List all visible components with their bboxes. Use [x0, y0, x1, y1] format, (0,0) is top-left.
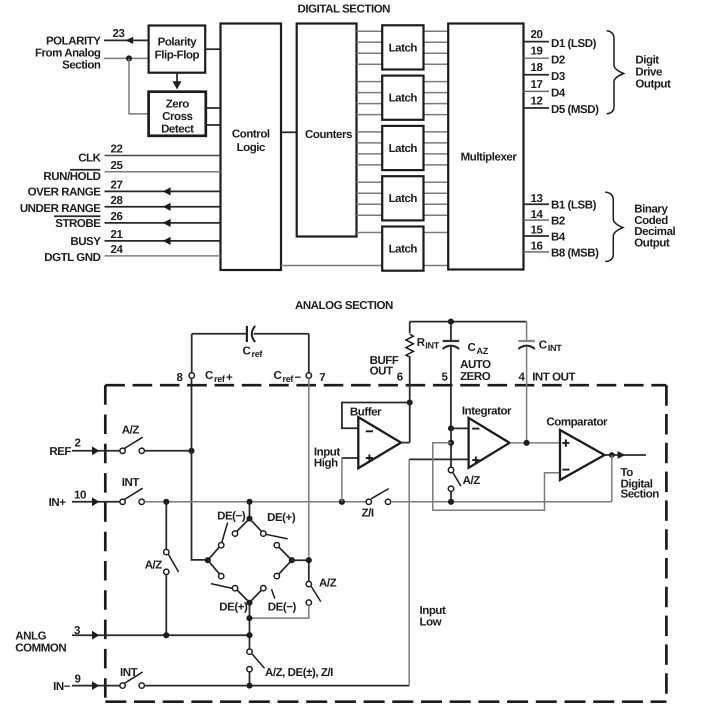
latch L2: [382, 76, 423, 120]
svg-text:A/Z: A/Z: [145, 559, 163, 571]
wire ZCD to Control Logic upper: [206, 107, 221, 109]
svg-text:C: C: [274, 370, 282, 382]
bus wires counters to latch2 and latch2 to multiplexer: [357, 82, 449, 115]
svg-text:INT OUT: INT OUT: [532, 372, 575, 384]
svg-text:C: C: [205, 370, 213, 382]
svg-text:REF: REF: [49, 446, 71, 458]
block Multiplexer: [448, 24, 523, 270]
svg-text:−: −: [295, 372, 302, 384]
junction dot REF / pin8 vertical: [188, 448, 194, 454]
wire REF switch to Cref+ node: [144, 450, 191, 452]
wire input high line: [144, 501, 366, 503]
svg-text:BUSY: BUSY: [70, 236, 101, 248]
svg-text:Output: Output: [634, 237, 670, 249]
wire UNDER RANGE output pin 28: [105, 203, 221, 211]
wire buffer plus input from input high: [342, 457, 358, 459]
svg-text:ref: ref: [252, 349, 264, 359]
wire PFF to Control Logic: [205, 48, 220, 50]
svg-text:Digit: Digit: [635, 55, 659, 67]
svg-text:+: +: [226, 372, 233, 384]
svg-text:ANLG: ANLG: [15, 630, 46, 642]
switch DE(+) lower left: [208, 560, 248, 600]
wire diamond stem from input high: [249, 502, 251, 519]
wire Control Logic to Counters: [281, 131, 297, 133]
svg-text:CLK: CLK: [78, 152, 101, 164]
svg-text:INT: INT: [122, 477, 140, 489]
svg-text:A/Z: A/Z: [463, 475, 481, 487]
svg-text:9: 9: [75, 673, 81, 685]
wire integrator node to comparator minus path: [448, 440, 454, 446]
svg-text:Output: Output: [635, 78, 671, 90]
svg-text:DE(−): DE(−): [268, 601, 297, 613]
svg-text:COMMON: COMMON: [15, 642, 66, 654]
svg-text:From Analog: From Analog: [35, 48, 101, 60]
wire center vertical to ANLG COMMON: [249, 603, 251, 649]
svg-text:B2: B2: [551, 216, 565, 228]
svg-text:8: 8: [177, 372, 184, 384]
svg-text:OUT: OUT: [370, 365, 393, 377]
bus wires latch5: [281, 233, 448, 266]
wire CLK input pin 22: [105, 155, 221, 157]
svg-text:Latch: Latch: [389, 42, 418, 54]
flip-flop U1 Polarity Flip-Flop: [149, 26, 206, 73]
wire Cref top loop: [192, 333, 246, 335]
svg-text:Low: Low: [420, 617, 442, 629]
wire OVER RANGE output pin 27: [105, 187, 221, 195]
svg-text:Logic: Logic: [237, 142, 266, 154]
svg-text:Detect: Detect: [161, 124, 194, 136]
node diamond bottom vertex: [246, 600, 252, 606]
svg-text:D1 (LSD): D1 (LSD): [551, 38, 597, 50]
svg-text:Drive: Drive: [635, 67, 662, 79]
wire buffer output to pin6 vertical: [401, 442, 410, 444]
svg-text:10: 10: [74, 489, 86, 501]
svg-text:7: 7: [319, 372, 325, 384]
junction dot top rail to CAZ: [448, 319, 454, 325]
svg-text:A/Z: A/Z: [122, 425, 140, 437]
wire RUN/HOLD input pin 25: [105, 171, 221, 173]
junction dot comparator output: [609, 452, 615, 458]
svg-text:To: To: [621, 467, 634, 479]
svg-text:Latch: Latch: [389, 93, 418, 105]
svg-text:RUN/HOLD: RUN/HOLD: [43, 171, 100, 183]
svg-text:2: 2: [75, 438, 81, 450]
svg-text:STROBE: STROBE: [55, 218, 101, 230]
svg-text:DIGITAL SECTION: DIGITAL SECTION: [298, 3, 391, 15]
svg-text:16: 16: [531, 241, 543, 253]
svg-text:B1 (LSB): B1 (LSB): [551, 200, 597, 212]
svg-text:POLARITY: POLARITY: [46, 36, 101, 48]
svg-text:ZERO: ZERO: [460, 371, 491, 383]
svg-text:Z/I: Z/I: [362, 508, 374, 520]
svg-text:C: C: [468, 342, 476, 354]
svg-text:D3: D3: [551, 71, 565, 83]
latch L5: [382, 227, 423, 271]
svg-text:28: 28: [111, 195, 124, 207]
svg-text:Cross: Cross: [162, 111, 192, 123]
wire POLARITY line pin 23: [104, 37, 149, 44]
node diamond right vertex: [289, 557, 295, 563]
wire Polarity FF to Zero Cross Detect with arrowhead: [173, 73, 182, 90]
wire digit output D1 pin 20: [524, 41, 550, 43]
svg-text:IN−: IN−: [53, 681, 71, 693]
svg-text:Comparator: Comparator: [546, 417, 608, 429]
svg-text:Binary: Binary: [634, 204, 668, 216]
svg-text:C: C: [539, 340, 547, 352]
svg-text:Latch: Latch: [389, 244, 418, 256]
latch L1: [382, 25, 423, 69]
op-amp U5 comparator triangle: [560, 430, 605, 480]
svg-text:IN+: IN+: [49, 497, 67, 509]
svg-text:23: 23: [113, 28, 125, 40]
svg-text:Latch: Latch: [389, 193, 418, 205]
wire comparator output: [605, 451, 646, 459]
svg-text:ref: ref: [214, 374, 226, 384]
svg-text:D5 (MSD): D5 (MSD): [551, 104, 599, 116]
switch Z/I: [366, 489, 391, 505]
svg-text:Coded: Coded: [634, 215, 668, 227]
svg-text:Zero: Zero: [166, 99, 190, 111]
wire digit output D4 pin 17: [524, 90, 550, 92]
wire BCD output B8 pin 16: [524, 251, 550, 253]
bus wires counters to latch3 and latch3 to multiplexer: [357, 132, 449, 165]
wire BCD output B2 pin 14: [524, 219, 550, 221]
svg-text:21: 21: [111, 229, 124, 241]
switch INT on IN-: [120, 672, 144, 688]
svg-text:B4: B4: [551, 232, 566, 244]
latch L4: [382, 176, 423, 220]
wire ZCD to Control Logic lower: [206, 124, 221, 126]
wire From Analog Section to Polarity Flip-Flop: [104, 57, 149, 59]
switch DE(-) lower right: [252, 560, 292, 600]
capacitor CINT: [518, 322, 535, 443]
svg-text:14: 14: [531, 209, 544, 221]
wire DGTL GND pin 24: [105, 255, 221, 257]
bus wires counters to latch1 and latch1 to multiplexer: [357, 31, 449, 64]
switch DE(-) upper left: [210, 519, 250, 559]
svg-text:Latch: Latch: [389, 143, 418, 155]
svg-text:24: 24: [111, 244, 124, 256]
wire BCD output B1 pin 13: [524, 203, 550, 205]
wire Z/I to comparator output node: [391, 501, 612, 503]
switch A/Z IN+ to common: [164, 502, 179, 635]
node diamond top vertex: [246, 516, 252, 522]
pin 7 terminal circle: [306, 373, 311, 378]
svg-text:A/Z, DE(±), Z/I: A/Z, DE(±), Z/I: [265, 667, 333, 679]
switch A/Z integrator input to comparator output: [448, 428, 461, 501]
brace binary coded decimal output: [605, 192, 623, 261]
svg-text:AUTO: AUTO: [460, 359, 491, 371]
op-amp U4 integrator triangle: [469, 418, 510, 468]
svg-text:19: 19: [531, 46, 543, 58]
svg-text:D4: D4: [551, 88, 566, 100]
wire right vertex to pin7 vertical: [292, 559, 309, 561]
block Counters: [297, 24, 357, 237]
switch A/Z DE Z/I common to IN-: [247, 649, 265, 686]
svg-text:3: 3: [74, 625, 80, 637]
svg-text:Integrator: Integrator: [462, 406, 512, 418]
latch L3: [382, 126, 423, 170]
op-amp U3 buffer triangle: [358, 417, 401, 468]
svg-text:Polarity: Polarity: [158, 37, 198, 49]
svg-text:Flip-Flop: Flip-Flop: [155, 50, 200, 62]
svg-text:27: 27: [111, 180, 123, 192]
svg-text:22: 22: [111, 144, 123, 156]
wire digit output D5 pin 12: [524, 107, 550, 109]
svg-text:INT: INT: [548, 343, 562, 353]
svg-text:Input: Input: [420, 605, 446, 617]
bus wires counters to latch4 and latch4 to multiplexer: [357, 182, 449, 215]
junction dot on From Analog wire: [126, 55, 132, 61]
wire REF input pin 2: [72, 446, 120, 455]
wire digit output D2 pin 19: [524, 57, 550, 59]
svg-text:UNDER RANGE: UNDER RANGE: [20, 203, 101, 215]
svg-text:DE(−): DE(−): [217, 510, 246, 522]
svg-text:D2: D2: [551, 54, 565, 66]
svg-text:INT: INT: [425, 341, 439, 351]
svg-text:Counters: Counters: [305, 129, 352, 141]
capacitor Cref: [247, 326, 255, 342]
svg-text:ref: ref: [283, 374, 295, 384]
wire digit output D3 pin 18: [524, 74, 550, 76]
capacitor CAZ: [443, 322, 460, 429]
resistor RINT: [406, 322, 413, 403]
svg-text:B8 (MSB): B8 (MSB): [551, 247, 599, 259]
svg-text:20: 20: [531, 29, 543, 41]
svg-text:4: 4: [519, 372, 526, 384]
svg-text:Section: Section: [62, 60, 101, 72]
svg-text:A/Z: A/Z: [319, 578, 337, 590]
svg-text:High: High: [314, 458, 338, 470]
wire IN- input pin 9: [72, 681, 120, 690]
svg-text:Section: Section: [621, 489, 660, 501]
wire comparator output feedback down: [611, 455, 613, 502]
svg-text:Multiplexer: Multiplexer: [461, 152, 518, 164]
svg-text:INT: INT: [120, 667, 138, 679]
wire input low vertical: [408, 459, 410, 685]
svg-text:13: 13: [531, 193, 543, 205]
wire pin7 vertical down: [308, 378, 310, 560]
detector U2 Zero Cross Detect: [149, 92, 206, 136]
svg-text:AZ: AZ: [477, 346, 489, 356]
wire BCD output B4 pin 15: [524, 235, 550, 237]
wire input low line: [144, 685, 409, 687]
wire integrator minus input: [451, 427, 469, 429]
wire BUSY output pin 21: [105, 237, 221, 245]
wire integrator plus input: [409, 458, 468, 460]
svg-text:6: 6: [397, 372, 403, 384]
wire IN+ input pin 10: [72, 497, 120, 506]
wire RINT CAZ CINT top rail: [410, 321, 527, 323]
pin 8 terminal circle: [189, 373, 194, 378]
dashed analog section border: [105, 385, 666, 702]
svg-text:Buffer: Buffer: [350, 407, 382, 419]
brace digit drive output: [607, 31, 624, 114]
junction dots on input high line: [163, 499, 169, 505]
wire branch down to Zero Cross Detect: [129, 58, 149, 114]
switch A/Z right side: [249, 581, 320, 618]
wire pin8 vertical down to DE diamond left vertex: [192, 378, 208, 560]
node diamond left vertex: [205, 557, 211, 563]
wire integrator output to comparator: [510, 442, 560, 444]
svg-text:5: 5: [442, 372, 449, 384]
svg-text:Control: Control: [232, 128, 270, 140]
svg-text:C: C: [243, 345, 251, 357]
svg-text:DE(+): DE(+): [219, 601, 248, 613]
wire buffer feedback loop: [342, 403, 410, 429]
svg-text:25: 25: [111, 160, 124, 172]
switch INT on IN+: [120, 488, 144, 504]
svg-text:DE(+): DE(+): [267, 512, 296, 524]
switch A/Z on REF: [120, 437, 144, 453]
svg-text:12: 12: [531, 95, 543, 107]
svg-text:17: 17: [531, 79, 543, 91]
svg-text:Decimal: Decimal: [634, 226, 675, 238]
wire STROBE output pin 26: [105, 219, 221, 227]
svg-text:OVER RANGE: OVER RANGE: [28, 187, 102, 199]
block Control Logic: [221, 24, 282, 271]
svg-text:DGTL GND: DGTL GND: [44, 252, 100, 264]
svg-text:18: 18: [531, 62, 544, 74]
svg-text:ANALOG SECTION: ANALOG SECTION: [295, 300, 393, 312]
switch DE(+) upper right: [250, 519, 290, 559]
svg-text:26: 26: [111, 211, 123, 223]
svg-text:15: 15: [531, 225, 544, 237]
wire ANLG COMMON input pin 3: [72, 631, 250, 640]
